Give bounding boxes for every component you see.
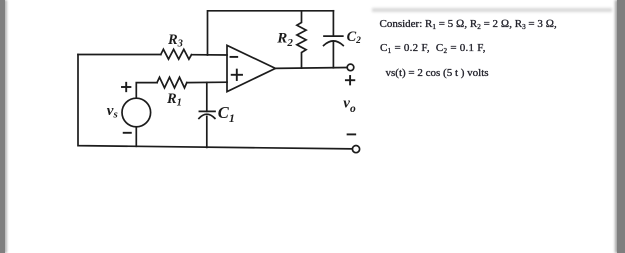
svg-text:C2: C2: [347, 29, 362, 46]
svg-text:R2: R2: [276, 31, 293, 49]
svg-text:C1: C1: [218, 103, 235, 125]
svg-text:R1: R1: [166, 91, 182, 108]
svg-text:vo: vo: [343, 95, 356, 114]
svg-text:vs: vs: [107, 103, 118, 121]
svg-text:R3: R3: [167, 32, 183, 49]
